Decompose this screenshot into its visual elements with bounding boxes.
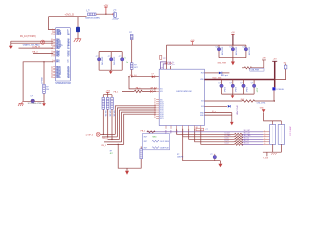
svg-text:C?: C? [218, 82, 220, 84]
wire R5 to R6 [131, 40, 133, 63]
wire DA row [132, 76, 159, 78]
svg-text:IO19: IO19 [160, 116, 164, 118]
svg-text:13: 13 [154, 105, 156, 107]
wire UART bus pair [11, 41, 53, 46]
svg-text:COM_R: COM_R [32, 47, 40, 49]
svg-text:D_CMD: D_CMD [225, 135, 232, 137]
svg-text:10K/PD: 10K/PD [177, 156, 184, 158]
wire row with resistor and diode [122, 90, 156, 92]
svg-text:C?: C? [251, 82, 253, 84]
wire BOOT0 [19, 47, 54, 49]
+5V rail top [167, 44, 246, 46]
nested wires module left pins [115, 106, 156, 145]
bottom rail caps [222, 93, 255, 95]
wire row PB_2 [107, 143, 124, 145]
wire crystal bottoms [263, 144, 282, 156]
svg-text:34: 34 [154, 88, 156, 90]
MCU U1 pin numbers outside [51, 29, 53, 79]
crystal Y1 can B [278, 121, 284, 144]
svg-text:C?: C? [205, 129, 207, 131]
capacitor bank right C6-C8 [219, 45, 246, 58]
module U2 left pin names [160, 89, 164, 121]
svg-text:LED_CTRL: LED_CTRL [257, 102, 266, 104]
capacitor C8 [243, 47, 250, 56]
svg-text:8MHz XT: 8MHz XT [40, 77, 42, 84]
resistor RN1 [102, 97, 106, 117]
capacitor bank C3-C5 loop [99, 52, 122, 71]
svg-text:35: 35 [154, 90, 156, 92]
crystal cap on loop [30, 96, 34, 103]
power arrow crystal left [260, 107, 282, 121]
ground arrow left of bus [9, 46, 13, 49]
svg-text:14: 14 [154, 101, 156, 103]
svg-text:PA_x: PA_x [136, 86, 141, 89]
svg-text:IO12: IO12 [160, 102, 164, 104]
diode D2 small [150, 90, 153, 92]
ground arrow caps mid [231, 94, 235, 98]
svg-text:VDD2: VDD2 [56, 34, 61, 36]
capacitor C2 polarized [76, 27, 80, 33]
svg-text:+3V3_D: +3V3_D [65, 13, 75, 17]
wire row 4 [104, 141, 122, 143]
wire row TXD_0 [108, 138, 120, 140]
capacitor C3 [96, 56, 103, 66]
diode D3 row [204, 72, 229, 77]
svg-text:+5V: +5V [273, 58, 277, 60]
module U2 right pin names [200, 73, 204, 117]
diode D1 on DA row [152, 73, 155, 78]
op MCU U1 box [55, 28, 71, 85]
svg-text:IO16: IO16 [160, 110, 164, 112]
svg-text:IO_x: IO_x [212, 111, 216, 113]
svg-text:100R FILM: 100R FILM [160, 148, 169, 150]
capacitor C6 [216, 47, 223, 56]
svg-text:23: 23 [154, 107, 156, 109]
no-ERC marker on bus [41, 40, 45, 44]
svg-text:38: 38 [67, 77, 69, 79]
svg-text:PB_2: PB_2 [141, 130, 146, 132]
svg-text:R2?: R2? [144, 136, 147, 138]
svg-text:1M: 1M [46, 89, 49, 91]
svg-text:D_D0: D_D0 [225, 138, 229, 140]
module U2 left pin numbers [154, 88, 156, 120]
svg-text:3: 3 [67, 62, 68, 64]
ground arrow cap bank [109, 70, 113, 74]
svg-text:100nF: 100nF [234, 87, 236, 92]
wire +3V3 top-left horizontal [49, 17, 87, 30]
ground chassis loop left [18, 101, 23, 106]
capacitor C9 [218, 80, 225, 95]
ground chassis small crystal [271, 153, 276, 155]
svg-text:R4?: R4? [144, 148, 147, 150]
svg-text:+5V: +5V [104, 4, 109, 7]
resistor R10 pulldown [140, 149, 143, 159]
capacitor C1 bulk [112, 10, 120, 20]
ground arrow cap bank right [231, 58, 235, 66]
capacitor C11 [240, 80, 247, 95]
svg-text:SD_CLK: SD_CLK [244, 133, 251, 135]
svg-text:IO1: IO1 [160, 89, 163, 91]
ground arrow osc right [42, 101, 46, 106]
box B1 resistor table [142, 134, 169, 150]
svg-text:R?: R? [284, 62, 286, 64]
svg-text:30: 30 [154, 115, 156, 117]
module U2 bottom pin stubs [166, 126, 201, 129]
svg-text:+5V: +5V [231, 32, 235, 34]
svg-text:D_D2: D_D2 [225, 143, 229, 145]
svg-text:25: 25 [154, 109, 156, 111]
svg-text:IO21: IO21 [160, 118, 164, 120]
svg-text:D_D1: D_D1 [225, 140, 229, 142]
wire row GP0 [100, 133, 115, 135]
wire to tantalum cap C2 [77, 17, 79, 27]
wire L1 to +5V node [96, 13, 113, 15]
resistor R8 horizontal zigzag [242, 67, 264, 69]
svg-text:20: 20 [67, 48, 69, 50]
svg-text:4K7: 4K7 [110, 153, 113, 155]
power port +5V rail [231, 32, 235, 45]
svg-text:VDD_3V3: VDD_3V3 [212, 78, 222, 80]
svg-text:+10uF: +10uF [256, 87, 258, 92]
svg-text:24: 24 [67, 33, 69, 36]
svg-text:TXD_0: TXD_0 [102, 138, 108, 140]
svg-text:ESP32 WROOM: ESP32 WROOM [177, 91, 192, 93]
svg-text:16: 16 [154, 103, 156, 105]
svg-text:PB_2: PB_2 [101, 145, 106, 147]
svg-text:10K 1%: 10K 1% [113, 111, 115, 117]
svg-text:600R@100MHz: 600R@100MHz [85, 18, 100, 20]
svg-text:IO4: IO4 [201, 106, 204, 108]
resistor R6 vertical [126, 61, 138, 70]
resistor RN2 [106, 97, 110, 117]
svg-text:PA15: PA15 [56, 76, 60, 79]
crystal Y1 can A [270, 121, 276, 144]
junction osc [43, 61, 44, 62]
svg-text:+5: +5 [123, 57, 125, 59]
wire LED to resistor row [273, 90, 275, 101]
header pin stubs right [263, 132, 270, 145]
svg-text:PB2: PB2 [56, 48, 60, 50]
svg-text:GND_PWR: GND_PWR [217, 62, 226, 64]
capacitor C12 [251, 80, 258, 95]
MCU U1 left pin stubs [53, 30, 55, 78]
ground arrow bottom mid [218, 161, 222, 168]
resistor R0 small red box [196, 127, 204, 131]
svg-text:100nF: 100nF [245, 87, 247, 92]
MCU U1 pin numbers inside right [67, 29, 69, 79]
svg-text:IO15: IO15 [160, 108, 164, 110]
module U2 box [159, 67, 204, 125]
svg-text:NL?: NL? [241, 99, 244, 101]
svg-text:+3V3: +3V3 [105, 90, 109, 92]
svg-text:+5: +5 [126, 61, 128, 63]
wire R6 to DA node [131, 69, 133, 76]
pull-up resistor array [103, 92, 112, 139]
svg-text:C?: C? [210, 154, 212, 156]
wire USB pair purple [159, 62, 167, 77]
svg-text:100nF16V: 100nF16V [113, 57, 115, 66]
svg-text:PA7: PA7 [56, 55, 59, 58]
svg-text:Y_32K: Y_32K [263, 158, 269, 160]
power port VBUS [262, 58, 266, 68]
svg-text:GPIO_PWR: GPIO_PWR [236, 105, 238, 115]
wire LED series resistor row [204, 100, 274, 102]
resistor RN3 [111, 97, 115, 117]
svg-text:32.768kHz XTAL: 32.768kHz XTAL [28, 102, 42, 105]
svg-text:10K 1%: 10K 1% [108, 111, 110, 117]
wire oscillator loop [23, 62, 53, 102]
power port +3V3 pullups [105, 90, 109, 92]
svg-text:17: 17 [67, 56, 69, 58]
svg-text:MED: MED [153, 136, 158, 138]
svg-text:4K7: 4K7 [134, 67, 137, 69]
no-ERC marker GP0 [96, 132, 100, 136]
series resistors bundle [235, 133, 243, 145]
wire GND rows right of module [204, 113, 231, 122]
wire bundle bottom rows to header [177, 129, 235, 145]
resistor R5 vertical top [129, 32, 133, 40]
capacitor C10 [230, 80, 237, 95]
ground chassis below C2 [74, 39, 81, 42]
thick VDD rail [204, 79, 274, 81]
wire PA_4 [33, 53, 53, 55]
wire row 2 [102, 136, 117, 138]
svg-text:ESD prot: ESD prot [221, 74, 228, 77]
inductor L1 [85, 9, 100, 20]
junction LED row [274, 100, 275, 101]
svg-text:USB_PWR: USB_PWR [251, 70, 260, 72]
module U2 top pins [167, 45, 171, 69]
svg-text:29: 29 [154, 98, 156, 100]
svg-text:D? BLUE: D? BLUE [276, 89, 284, 91]
net label box USB_PWR [250, 68, 264, 71]
svg-text:100nF16V: 100nF16V [234, 47, 236, 56]
svg-text:PA_10 (TX/RX): PA_10 (TX/RX) [20, 35, 36, 38]
MCU U1 pin-name text rows [56, 29, 62, 79]
svg-text:IO18: IO18 [160, 114, 164, 116]
svg-text:100nF16V: 100nF16V [101, 57, 103, 66]
svg-text:10.7K FILM: 10.7K FILM [160, 141, 169, 143]
svg-text:SD_D0: SD_D0 [244, 138, 249, 140]
svg-text:STM32F072C8: STM32F072C8 [55, 83, 71, 85]
svg-text:SD_D2: SD_D2 [244, 143, 249, 145]
capacitor C7 [230, 47, 237, 56]
ground arrow pulldown [125, 168, 129, 175]
wire C2 to ground [77, 32, 79, 39]
svg-text:17: 17 [51, 56, 53, 58]
wire module pin to bottom gnd rail [183, 129, 221, 161]
svg-text:3V3_EN: 3V3_EN [165, 63, 173, 65]
net labels purple left [225, 133, 232, 145]
module U2 left pin stubs [156, 89, 159, 119]
svg-text:ANT 2.4G: ANT 2.4G [289, 127, 292, 137]
svg-text:R?: R? [163, 58, 165, 60]
resistor R9 zigzag [147, 131, 155, 133]
svg-text:C?: C? [240, 82, 242, 84]
svg-text:C?: C? [230, 82, 232, 84]
svg-text:100nF: 100nF [223, 87, 225, 92]
ground arrow module right [230, 122, 234, 125]
svg-text:SD_CMD: SD_CMD [244, 135, 252, 137]
svg-text:27: 27 [154, 111, 156, 113]
svg-text:PA_4: PA_4 [32, 51, 38, 54]
svg-text:33: 33 [154, 117, 156, 119]
LED D4 blue [272, 87, 284, 91]
svg-text:SD_DET: SD_DET [244, 130, 250, 132]
svg-text:24: 24 [51, 34, 53, 36]
svg-text:38: 38 [51, 77, 53, 79]
junction dots pullups [103, 134, 104, 135]
diode D5 zener blue [228, 105, 231, 108]
net labels purple right [244, 130, 252, 145]
wire IO row with zener [204, 105, 227, 107]
capacitor C4 [108, 56, 115, 66]
svg-text:x2 GP_0: x2 GP_0 [86, 135, 93, 137]
svg-text:28: 28 [154, 113, 156, 115]
wire purple rows to header [147, 132, 263, 145]
resistor R7 branch [275, 62, 287, 79]
svg-text:+5V0: +5V0 [190, 40, 194, 42]
power port +5V top-left [104, 4, 109, 15]
power port +5V right [272, 58, 277, 87]
svg-text:SD_D1: SD_D1 [244, 140, 249, 142]
svg-text:IO2: IO2 [201, 101, 204, 103]
svg-text:IO17: IO17 [160, 112, 164, 114]
svg-text:+100uF: +100uF [112, 19, 120, 21]
svg-text:R3?: R3? [144, 141, 147, 143]
wire PB_2 row with resistor [146, 131, 148, 132]
resistor R feedback vertical [40, 77, 49, 93]
header pin numbers [264, 130, 265, 145]
capacitor C5 [119, 56, 126, 61]
svg-text:3V3: 3V3 [201, 73, 204, 75]
pulldown loop [118, 144, 141, 168]
svg-text:PB_1: PB_1 [114, 91, 119, 93]
capacitor C13 [210, 154, 216, 161]
power flag mid rail [190, 40, 194, 45]
svg-text:IO3: IO3 [160, 91, 163, 93]
svg-text:100nF16V: 100nF16V [247, 47, 249, 56]
svg-text:10K 1%: 10K 1% [104, 111, 106, 117]
wire row PA to module [129, 77, 156, 89]
resistor small above USB [160, 56, 166, 60]
svg-text:D?: D? [152, 73, 154, 75]
svg-text:IO14: IO14 [160, 106, 164, 108]
svg-text:IO5: IO5 [160, 99, 163, 101]
svg-text:IO13: IO13 [160, 104, 164, 106]
svg-text:PF1: PF1 [56, 62, 59, 64]
svg-text:100nF16V: 100nF16V [220, 47, 222, 56]
pin labels below module [164, 130, 177, 134]
